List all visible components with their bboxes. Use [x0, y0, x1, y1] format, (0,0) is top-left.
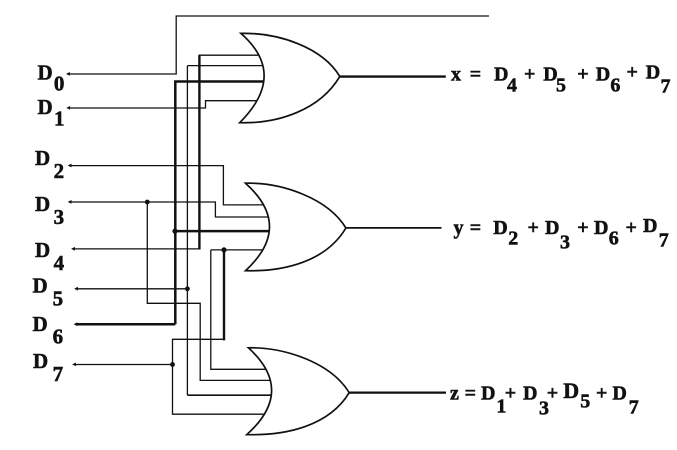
svg-text:6: 6	[609, 228, 619, 250]
equation z = D1 + D3 + D5 + D7	[450, 378, 639, 419]
svg-text:7: 7	[53, 362, 64, 386]
svg-text:+: +	[524, 64, 535, 86]
svg-text:D: D	[38, 95, 53, 119]
svg-text:D: D	[545, 217, 559, 239]
svg-text:D: D	[481, 382, 495, 404]
wire D4 into top gate	[199, 54, 263, 56]
wire D6 into top gate	[174, 80, 266, 83]
wire output y	[345, 227, 442, 229]
wire D6 horizontal	[76, 323, 175, 326]
svg-text:5: 5	[580, 390, 590, 412]
svg-text:+: +	[627, 62, 638, 84]
wire D5 horizontal	[76, 288, 187, 290]
node D6 net (thick): wires to top gate input 3 and middle gate input 3	[76, 82, 272, 325]
terminal arrow D0	[66, 72, 70, 76]
svg-text:+: +	[577, 217, 588, 239]
wire D5 into top gate	[187, 65, 264, 67]
equation y = D2 + D3 + D6 + D7	[454, 215, 669, 254]
label D5	[33, 274, 64, 311]
svg-text:D: D	[594, 217, 608, 239]
wire D7 horizontal	[75, 364, 173, 366]
svg-text:7: 7	[659, 230, 669, 252]
svg-text:D: D	[33, 312, 48, 336]
wire D7 drop to bottom gate input 4	[173, 365, 265, 415]
wire D6 vertical bus	[174, 82, 177, 325]
svg-text:5: 5	[556, 75, 566, 97]
svg-text:6: 6	[610, 75, 620, 97]
svg-text:D: D	[35, 238, 50, 262]
svg-text:+: +	[596, 382, 607, 404]
svg-text:D: D	[33, 349, 48, 373]
svg-text:3: 3	[560, 232, 570, 254]
terminal arrow D7	[72, 363, 76, 367]
svg-text:D: D	[33, 274, 48, 298]
wire D3 main	[70, 202, 273, 217]
node D7 net: wires to middle gate input 4 and bottom gate inputs	[75, 250, 271, 414]
svg-text:x: x	[451, 64, 461, 86]
svg-text:7: 7	[629, 396, 639, 418]
wire D3 branch to bottom gate input 2	[147, 202, 272, 380]
svg-text:D: D	[596, 64, 610, 86]
svg-text:2: 2	[54, 159, 65, 183]
node D2 net: wire to middle gate input 1	[70, 166, 271, 205]
svg-text:4: 4	[54, 251, 65, 275]
svg-text:7: 7	[661, 76, 671, 98]
terminal arrow D3	[68, 200, 72, 204]
or-gate U3 (z output, bottom)	[247, 348, 349, 435]
terminal arrow D5	[74, 287, 78, 291]
wire D5 vertical bus	[186, 66, 188, 396]
svg-text:1: 1	[54, 106, 65, 130]
svg-text:+: +	[505, 382, 516, 404]
wire D4 riser (thick)	[198, 55, 200, 249]
equation x = D4 + D5 + D6 + D7	[451, 62, 671, 98]
svg-text:4: 4	[507, 75, 517, 97]
svg-text:D: D	[612, 382, 626, 404]
svg-text:=: =	[470, 64, 481, 86]
wire output x	[340, 75, 446, 77]
svg-text:2: 2	[508, 228, 518, 250]
label D0	[38, 60, 65, 95]
terminal arrow D2	[68, 164, 72, 168]
svg-text:3: 3	[54, 205, 65, 229]
svg-text:D: D	[38, 60, 53, 84]
node D3 net: wire to middle gate input 2	[70, 202, 273, 380]
junction on D6 vertical (middle gate branch)	[172, 229, 177, 234]
wire D0 horizontal and vertical to top line	[68, 16, 489, 74]
label D7	[33, 349, 63, 386]
junction on D3 wire	[145, 200, 150, 205]
svg-text:+: +	[626, 217, 637, 239]
wire D2	[70, 166, 271, 205]
node D1 net: wire to top gate input 4	[69, 101, 267, 108]
node D4 net: wire to top gate input 1	[73, 55, 262, 249]
svg-text:=: =	[465, 382, 476, 404]
svg-text:6: 6	[53, 325, 64, 349]
wire output z	[349, 391, 446, 393]
terminal arrow D1	[66, 106, 70, 110]
label D2	[35, 146, 64, 183]
node D0 net: wire from D0 terminal up and across the top	[68, 16, 489, 74]
wire D5 into bottom gate	[187, 394, 272, 396]
svg-text:+: +	[577, 64, 588, 86]
svg-text:0: 0	[54, 72, 65, 96]
svg-text:=: =	[470, 217, 481, 239]
label D1	[38, 95, 65, 130]
junction on D5 wire	[185, 286, 190, 291]
label D4	[35, 238, 65, 275]
svg-text:+: +	[547, 382, 558, 404]
label D3	[35, 192, 64, 229]
svg-text:y: y	[454, 217, 464, 239]
svg-text:D: D	[35, 192, 50, 216]
svg-text:5: 5	[53, 286, 64, 310]
wire drop to bottom gate input 1	[211, 250, 270, 369]
or-gate U2 (y output, middle)	[246, 183, 346, 271]
svg-text:+: +	[528, 217, 539, 239]
junction on D7 wire	[170, 362, 175, 367]
svg-text:D: D	[563, 378, 579, 403]
junction on middle gate input 4 wire	[221, 247, 226, 252]
or-gate U1 (x output, top)	[240, 33, 340, 122]
node D5 net: wires to top gate input 2 and bottom gate input 3	[76, 66, 272, 396]
svg-text:D: D	[643, 215, 657, 237]
svg-text:z: z	[450, 382, 459, 404]
svg-text:D: D	[493, 217, 507, 239]
wire D4 horizontal	[73, 248, 199, 250]
wire middle gate input 4 horizontal	[211, 249, 268, 251]
svg-text:D: D	[646, 62, 660, 84]
terminal arrow D6	[74, 322, 78, 326]
wire D7 thick riser to middle gate level	[223, 250, 225, 341]
terminal arrow D4	[71, 247, 75, 251]
svg-text:D: D	[35, 146, 50, 170]
wire D7 riser to link	[173, 339, 225, 364]
wire D1	[69, 101, 267, 108]
label D6	[33, 312, 64, 349]
wire D6 branch into middle gate	[175, 230, 272, 233]
svg-text:D: D	[523, 382, 537, 404]
